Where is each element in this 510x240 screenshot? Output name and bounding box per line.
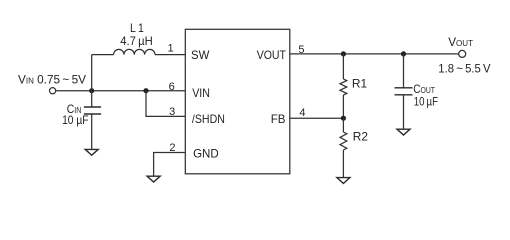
wire GND pin [154,153,186,177]
svg-text:6: 6 [169,81,175,93]
resistor R2 [340,118,347,177]
svg-text:2: 2 [169,142,175,154]
svg-text:10 µF: 10 µF [62,113,88,127]
wire L1 to SW pin [155,54,185,56]
svg-text:4: 4 [299,107,305,119]
wire VIN rail [56,90,186,92]
input terminal VIN [50,88,56,94]
svg-text:R2: R2 [353,129,369,143]
wire VOUT rail [290,53,459,55]
ground under COUT [397,129,410,135]
junction at R1 branch [341,51,346,56]
IC U1 body [185,29,289,174]
junction at SHDN branch [143,88,148,93]
svg-text:FB: FB [271,112,286,126]
svg-text:1.8 ~ 5.5 V: 1.8 ~ 5.5 V [438,62,490,76]
junction at COUT branch [401,51,406,56]
ground under R2 [337,178,350,184]
svg-text:SW: SW [191,48,210,62]
svg-text:4.7 µH: 4.7 µH [120,34,153,48]
wire FB pin [290,117,343,119]
ground under CIN [85,149,98,155]
output terminal VOUT [459,50,466,57]
svg-text:GND: GND [193,147,219,161]
svg-text:10 µF: 10 µF [414,94,438,108]
svg-text:5: 5 [298,44,304,56]
wire up to inductor [91,55,93,91]
wire to /SHDN pin [146,91,185,117]
junction at L1/CIN branch [89,88,94,93]
svg-text:VOUT: VOUT [257,48,287,62]
inductor L1 [92,49,155,54]
resistor R1 [340,54,347,118]
capacitor COUT [395,54,413,129]
svg-text:L 1: L 1 [130,21,144,35]
ground under GND pin [147,176,160,182]
junction at FB/R2 [341,116,346,121]
svg-text:VIN: VIN [192,86,210,100]
svg-text:3: 3 [169,106,175,118]
svg-text:/SHDN: /SHDN [192,112,225,126]
svg-text:1: 1 [167,43,173,55]
capacitor CIN [84,91,101,150]
svg-text:R1: R1 [352,76,368,90]
